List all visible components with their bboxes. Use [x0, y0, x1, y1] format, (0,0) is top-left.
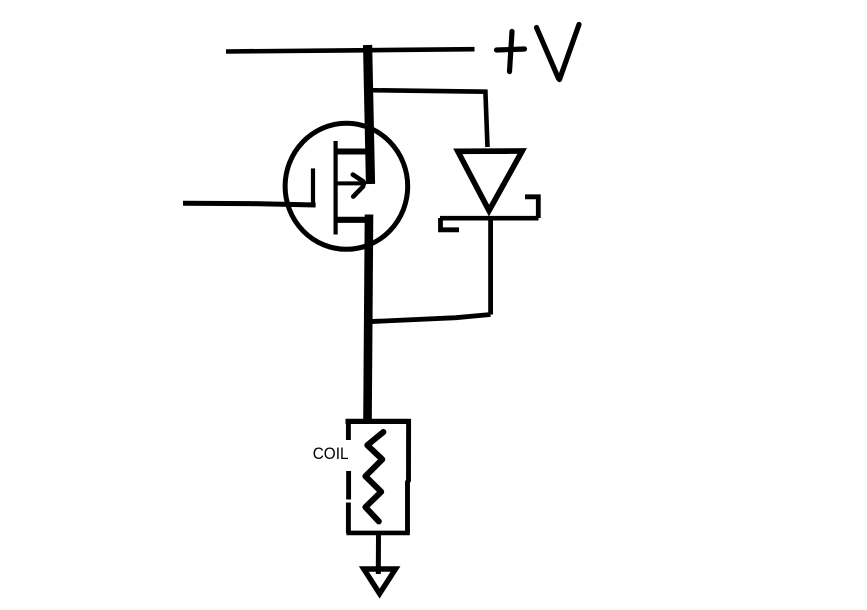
COIL label — [313, 444, 349, 463]
coil box left edge segments — [346, 419, 351, 533]
diode D1 anode triangle — [458, 151, 522, 211]
coil winding zigzag — [365, 432, 383, 521]
wire: drain lead from rail (thick) — [368, 45, 371, 184]
svg-text:COIL: COIL — [313, 444, 349, 463]
MOSFET Q1 channel plate — [334, 141, 338, 235]
MOSFET Q1 drain connection inside — [335, 149, 368, 155]
wire: diode cathode lead down — [488, 216, 493, 315]
wire: source lead down to node and coil (thick) — [368, 215, 370, 421]
wire: from diode cathode to source node — [368, 315, 491, 322]
diode D1 cathode bar with bent ends — [440, 197, 539, 230]
MOSFET Q1 body circle — [285, 123, 408, 249]
wire: coil to ground — [376, 534, 381, 574]
coil box bottom edge — [346, 531, 409, 536]
coil box top edge — [346, 419, 411, 424]
+V label — [497, 25, 580, 80]
MOSFET Q1 arrow (pointing right) — [336, 175, 366, 197]
wire: branch from drain to diode anode — [369, 90, 488, 147]
MOSFET Q1 source connection inside — [335, 217, 371, 223]
wire: +V supply rail — [226, 49, 475, 51]
coil box right edge — [408, 419, 409, 533]
ground symbol (open triangle) — [364, 569, 396, 594]
wire: gate lead — [183, 203, 316, 205]
MOSFET Q1 gate electrode hook — [311, 168, 315, 206]
